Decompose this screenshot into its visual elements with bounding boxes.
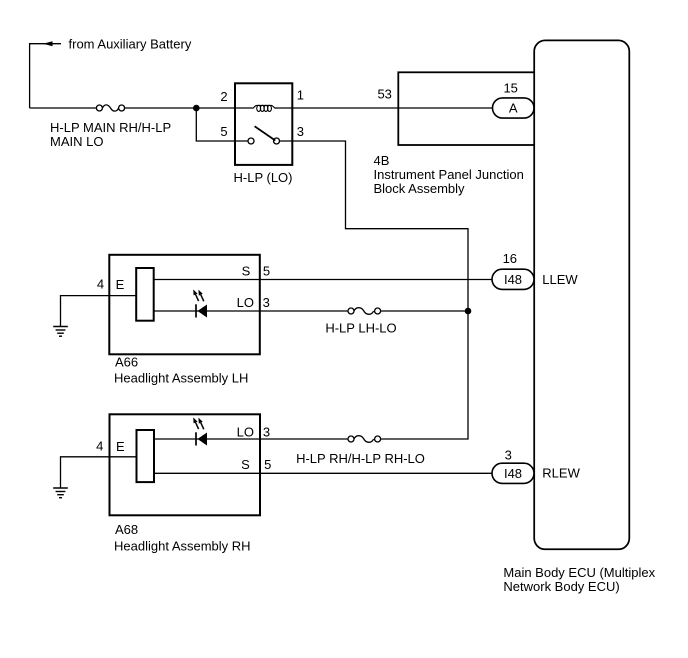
svg-text:H-LP (LO): H-LP (LO) — [234, 170, 293, 185]
headlight assembly LH box A66 — [109, 255, 259, 354]
svg-text:Headlight Assembly LH: Headlight Assembly LH — [114, 370, 248, 385]
svg-text:16: 16 — [503, 251, 517, 266]
svg-text:4B: 4B — [374, 153, 390, 168]
wire 53 to connector A — [398, 107, 492, 109]
wire: battery feed vertical — [30, 44, 61, 108]
wire LO RH — [154, 438, 348, 440]
svg-text:MAIN LO: MAIN LO — [50, 134, 103, 149]
wire fuse to vertical junction — [381, 310, 468, 312]
svg-text:Headlight Assembly RH: Headlight Assembly RH — [114, 538, 251, 553]
junction block 4B box — [398, 72, 535, 145]
svg-text:S: S — [242, 264, 251, 279]
LED RH — [193, 417, 207, 445]
A68 inner connector rect — [137, 430, 155, 482]
fuse H-LP RH/H-LP RH-LO — [348, 436, 381, 443]
svg-text:E: E — [116, 277, 125, 292]
svg-text:A66: A66 — [115, 354, 138, 369]
fuse H-LP LH-LO — [348, 308, 381, 315]
wire E to ground (RH) — [61, 457, 137, 488]
svg-text:Network Body ECU): Network Body ECU) — [503, 579, 619, 594]
svg-text:4: 4 — [97, 277, 104, 292]
wire through relay top — [235, 107, 398, 109]
svg-text:3: 3 — [505, 448, 512, 463]
svg-text:H-LP LH-LO: H-LP LH-LO — [325, 320, 396, 335]
svg-text:S: S — [241, 457, 250, 472]
svg-text:E: E — [116, 439, 125, 454]
arrowhead from Auxiliary Battery — [43, 41, 53, 46]
svg-text:4: 4 — [96, 439, 103, 454]
svg-text:5: 5 — [264, 457, 271, 472]
wire S LH to LLEW — [154, 279, 493, 281]
A66 inner connector rect — [136, 268, 154, 321]
svg-text:from Auxiliary Battery: from Auxiliary Battery — [69, 36, 192, 51]
svg-text:Instrument Panel Junction: Instrument Panel Junction — [374, 167, 524, 182]
svg-text:I48: I48 — [504, 466, 522, 481]
svg-text:2: 2 — [220, 89, 227, 104]
relay switch contacts — [248, 126, 280, 144]
relay H-LP (LO) box — [235, 83, 292, 165]
svg-text:Block Assembly: Block Assembly — [374, 181, 466, 196]
Main Body ECU box — [534, 40, 629, 549]
wire: main feed to fuse — [30, 107, 97, 109]
svg-text:3: 3 — [297, 124, 304, 139]
svg-text:5: 5 — [220, 124, 227, 139]
svg-text:A: A — [509, 101, 518, 116]
wire: fuse to relay — [125, 107, 235, 109]
svg-text:3: 3 — [263, 295, 270, 310]
node: junction at relay input — [193, 105, 200, 112]
svg-text:H-LP RH/H-LP RH-LO: H-LP RH/H-LP RH-LO — [296, 451, 425, 466]
svg-text:1: 1 — [297, 88, 304, 103]
svg-text:H-LP MAIN RH/H-LP: H-LP MAIN RH/H-LP — [50, 120, 171, 135]
svg-text:53: 53 — [377, 87, 391, 102]
svg-text:5: 5 — [263, 264, 270, 279]
svg-text:LO: LO — [237, 295, 254, 310]
wire: relay pin3 out to junction dot path — [280, 141, 469, 439]
wire LO LH — [154, 310, 348, 312]
connector I48 LLEW oval — [492, 269, 534, 289]
svg-text:15: 15 — [503, 80, 517, 95]
svg-text:I48: I48 — [504, 272, 522, 287]
connector I48 RLEW oval — [492, 463, 534, 483]
svg-text:3: 3 — [263, 425, 270, 440]
svg-text:Main Body ECU (Multiplex: Main Body ECU (Multiplex — [503, 565, 655, 580]
svg-text:A68: A68 — [115, 522, 138, 537]
ground (LH) — [53, 327, 68, 337]
fuse H-LP MAIN RH/H-LP MAIN LO — [96, 105, 124, 111]
ground (RH) — [53, 488, 68, 498]
connector A oval — [493, 98, 535, 118]
LED LH — [193, 289, 207, 317]
node: junction dot — [465, 308, 472, 315]
svg-text:LO: LO — [237, 425, 254, 440]
relay coil — [253, 105, 276, 111]
wire S RH to RLEW — [154, 472, 493, 474]
wire E to ground (LH) — [61, 296, 137, 327]
svg-text:LLEW: LLEW — [542, 272, 578, 287]
wire: junction down to relay pin 5 — [196, 108, 248, 141]
svg-text:RLEW: RLEW — [542, 466, 580, 481]
headlight assembly RH box A68 — [110, 414, 261, 515]
